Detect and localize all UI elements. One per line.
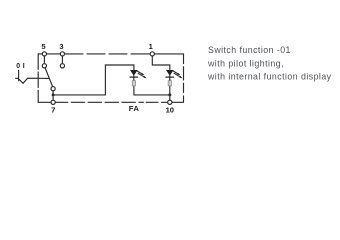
wire: terminal 1 to LED2	[152, 56, 170, 70]
junction dot at pole	[52, 93, 55, 96]
terminal 3 circle	[60, 52, 64, 56]
pole wire to terminal 7	[52, 91, 54, 100]
svg-text:7: 7	[51, 106, 55, 115]
resistor R2	[168, 81, 171, 86]
svg-text:3: 3	[59, 42, 63, 51]
LED D1 emission arrows	[136, 70, 144, 76]
pole contact circle	[51, 87, 55, 91]
actuator (manual operating handle with detent)	[16, 70, 50, 83]
svg-text:I: I	[23, 63, 25, 70]
terminal 1 circle	[150, 52, 154, 56]
description text block	[207, 45, 332, 82]
enclosure frame top edge	[38, 53, 183, 55]
enclosure frame left edge (dashed)	[37, 54, 39, 102]
enclosure frame right edge (dashed)	[183, 54, 185, 102]
terminal labels	[41, 42, 174, 115]
terminal 7 circle	[51, 100, 55, 104]
LED D2 (internal function display)	[166, 70, 174, 76]
svg-text:FA: FA	[129, 104, 140, 113]
svg-text:10: 10	[166, 106, 174, 115]
terminal 5 circle	[42, 52, 46, 56]
LED D2 emission arrows	[172, 70, 180, 76]
contact circle under 5	[42, 64, 46, 68]
wire: LED1 bottom to junction	[134, 86, 170, 95]
resistor R1	[132, 81, 135, 86]
svg-text:0: 0	[16, 63, 20, 70]
wire: lamp loop left + top	[105, 65, 133, 95]
enclosure frame bottom edge	[38, 101, 183, 103]
terminal 3 stub wire	[61, 56, 63, 64]
svg-text:Switch function -01: Switch function -01	[208, 45, 291, 55]
wire: pole junction to lamp loop	[53, 94, 105, 96]
switch blade (moving contact)	[45, 68, 52, 87]
LED D1 (pilot light)	[130, 70, 138, 76]
contact circle under 3	[60, 64, 64, 68]
svg-text:with pilot lighting,: with pilot lighting,	[207, 58, 284, 68]
terminal 10 circle	[168, 100, 172, 104]
svg-text:with internal function display: with internal function display	[207, 72, 332, 82]
label 0 I (positions)	[16, 63, 24, 70]
junction dot above terminal 10	[168, 93, 171, 96]
wire: LED2 bottom to terminal 10	[169, 79, 171, 100]
terminal 5 stub wire	[43, 56, 45, 64]
